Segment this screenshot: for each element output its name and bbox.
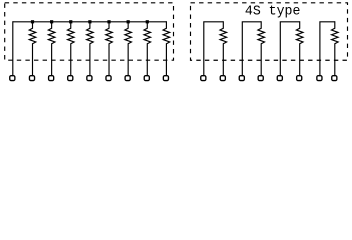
junction node at resistor R3 tap: [69, 20, 72, 23]
resistor R9 (4S element 1): [220, 21, 227, 76]
resistor R8: [163, 21, 170, 76]
terminal pin 2 (left network): [29, 76, 34, 81]
terminal pin 4 (right network): [258, 76, 263, 81]
junction node at resistor R1 tap: [31, 20, 34, 23]
common bus wire: [13, 21, 167, 23]
terminal pin 5 (left network): [87, 76, 92, 81]
terminal pin 9 (left network): [163, 76, 168, 81]
junction node at resistor R5 tap: [107, 20, 110, 23]
terminal pin 2 (right network): [220, 76, 225, 81]
terminal pin 4 (left network): [68, 76, 73, 81]
wire: common pin lead (pin 1): [12, 21, 14, 76]
resistor R6: [125, 22, 132, 76]
resistor R4: [87, 22, 94, 76]
wire: isolated element 3 top link and left lead: [280, 22, 299, 76]
resistor R1: [29, 22, 36, 76]
terminal pin 3 (left network): [49, 76, 54, 81]
terminal pin 5 (right network): [277, 76, 282, 81]
junction node at resistor R2 tap: [50, 20, 53, 23]
terminal pin 3 (right network): [239, 76, 244, 81]
resistor R2: [48, 22, 55, 76]
terminal pin 1 (left network): [10, 76, 15, 81]
resistor R12 (4S element 4): [332, 21, 339, 76]
terminal pin 8 (right network): [332, 76, 337, 81]
package outline (left 8-resistor bussed network, dashed box): [5, 3, 174, 60]
resistor R11 (4S element 3): [296, 21, 303, 76]
terminal pin 6 (right network): [297, 76, 302, 81]
terminal pin 8 (left network): [144, 76, 149, 81]
terminal pin 7 (right network): [317, 76, 322, 81]
junction node at resistor R7 tap: [146, 20, 149, 23]
terminal pin 7 (left network): [125, 76, 130, 81]
resistor R7: [144, 22, 151, 76]
svg-text:4S type: 4S type: [245, 4, 301, 20]
resistor R10 (4S element 2): [258, 21, 265, 76]
wire: isolated element 1 top link and left lead: [204, 22, 224, 76]
package outline (right 4S type network, dashed box): [191, 3, 348, 60]
wire: isolated element 2 top link and left lead: [242, 22, 261, 76]
resistor R5: [106, 22, 113, 76]
junction node at resistor R6 tap: [127, 20, 130, 23]
wire: isolated element 4 top link and left lead: [320, 22, 335, 76]
terminal pin 1 (right network): [201, 76, 206, 81]
resistor R3: [67, 22, 74, 76]
junction node at resistor R4 tap: [88, 20, 91, 23]
terminal pin 6 (left network): [106, 76, 111, 81]
